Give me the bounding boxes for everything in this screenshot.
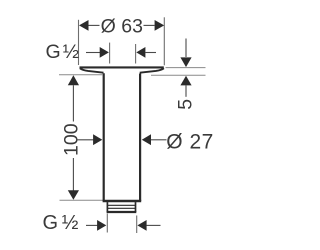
svg-text:5: 5 — [175, 99, 197, 110]
svg-text:½: ½ — [63, 41, 79, 63]
svg-text:½: ½ — [62, 212, 79, 234]
svg-text:Ø 27: Ø 27 — [166, 130, 214, 153]
svg-text:G: G — [43, 212, 59, 234]
svg-text:Ø 63: Ø 63 — [101, 15, 143, 37]
svg-text:G: G — [46, 41, 61, 63]
